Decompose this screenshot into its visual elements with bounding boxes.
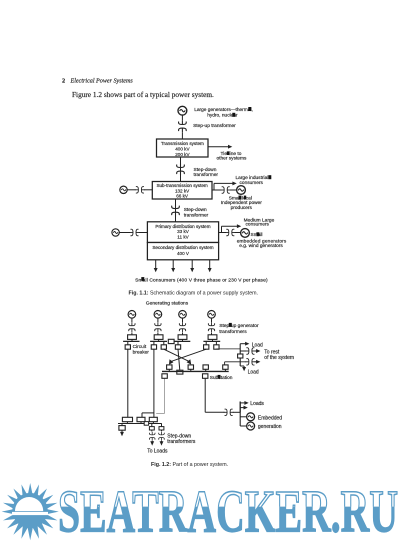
svg-text:33 kV: 33 kV bbox=[177, 229, 190, 234]
svg-text:Electrical Power Systems: Electrical Power Systems bbox=[70, 79, 134, 85]
svg-text:Large generators—thermal,: Large generators—thermal, bbox=[194, 107, 253, 113]
svg-text:Load: Load bbox=[248, 370, 259, 376]
svg-text:transformer: transformer bbox=[184, 212, 209, 218]
svg-text:consumers: consumers bbox=[246, 222, 270, 228]
svg-text:200 kV: 200 kV bbox=[175, 152, 190, 157]
svg-text:Fig. 1.1: Schematic diagram of: Fig. 1.1: Schematic diagram of a power s… bbox=[129, 291, 259, 297]
svg-text:breaker: breaker bbox=[133, 350, 150, 356]
svg-text:Step-up transformer: Step-up transformer bbox=[193, 123, 236, 129]
svg-text:400 kV: 400 kV bbox=[175, 147, 190, 152]
svg-text:Small Consumers (400 V three p: Small Consumers (400 V three phase or 23… bbox=[135, 277, 268, 283]
svg-text:Step-down: Step-down bbox=[184, 207, 207, 213]
svg-text:11 kV: 11 kV bbox=[177, 235, 189, 240]
svg-text:of the system: of the system bbox=[264, 355, 294, 361]
svg-text:consumers: consumers bbox=[240, 180, 264, 186]
svg-text:transformers: transformers bbox=[167, 439, 196, 445]
svg-text:transformer: transformer bbox=[194, 172, 219, 178]
svg-text:producers: producers bbox=[231, 205, 253, 211]
svg-text:Step-up generator: Step-up generator bbox=[219, 323, 259, 329]
svg-text:Transmission system: Transmission system bbox=[161, 141, 204, 146]
svg-text:66 kV: 66 kV bbox=[176, 193, 189, 198]
svg-text:Secondary distribution system: Secondary distribution system bbox=[152, 245, 213, 250]
svg-text:Circuit: Circuit bbox=[133, 344, 147, 350]
svg-text:Step-down: Step-down bbox=[194, 167, 217, 173]
svg-text:Substation: Substation bbox=[210, 375, 233, 381]
svg-text:e.g. wind generators: e.g. wind generators bbox=[239, 243, 283, 249]
svg-text:other systems: other systems bbox=[217, 156, 247, 162]
svg-text:2: 2 bbox=[62, 78, 65, 85]
svg-text:Loads: Loads bbox=[250, 401, 264, 407]
svg-text:Fig. 1.2: Part of a power syst: Fig. 1.2: Part of a power system. bbox=[151, 462, 228, 468]
svg-text:Embedded: Embedded bbox=[258, 415, 282, 421]
svg-text:Figure 1.2 shows part of a typ: Figure 1.2 shows part of a typical power… bbox=[72, 90, 214, 99]
svg-text:transformers: transformers bbox=[219, 329, 247, 335]
svg-text:To Loads: To Loads bbox=[147, 449, 168, 455]
svg-text:Large industrial: Large industrial bbox=[236, 175, 269, 181]
svg-text:Primary distribution system: Primary distribution system bbox=[155, 224, 210, 229]
svg-text:generation: generation bbox=[258, 424, 282, 430]
svg-text:400 V: 400 V bbox=[177, 251, 190, 256]
svg-text:Generating stations: Generating stations bbox=[146, 300, 189, 306]
